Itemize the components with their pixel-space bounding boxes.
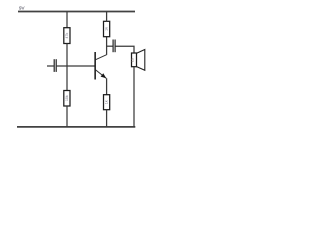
wire R1 to base node <box>66 44 68 67</box>
svg-text:10k: 10k <box>65 95 69 101</box>
svg-text:1k: 1k <box>105 100 109 104</box>
speaker LS1 <box>131 50 145 71</box>
wire R2 to ground <box>66 106 68 127</box>
wire emitter vertical <box>106 78 108 94</box>
wire collector vertical <box>106 37 108 55</box>
wire base node to R2 <box>66 66 68 91</box>
wire rail to R3 <box>106 12 108 22</box>
svg-text:47k: 47k <box>65 33 69 39</box>
resistor R2 <box>64 91 70 107</box>
wire R4 to ground <box>106 110 108 127</box>
transistor Q1 <box>94 52 106 80</box>
wire speaker to ground <box>133 67 135 127</box>
capacitor C1 <box>54 59 56 72</box>
svg-text:9V: 9V <box>19 6 25 11</box>
ground rail <box>17 126 135 128</box>
+9V rail <box>18 11 135 13</box>
resistor R3 <box>104 21 110 36</box>
wire C1 to base <box>57 65 95 67</box>
resistor R4 <box>104 95 110 110</box>
wire input lead <box>47 65 54 67</box>
svg-text:1k: 1k <box>105 27 109 31</box>
wire rail to R1 <box>66 12 68 29</box>
wire collector to C2 <box>106 45 113 47</box>
resistor R1 <box>64 28 70 44</box>
capacitor C2 <box>113 40 115 53</box>
wire C2 to speaker <box>116 46 135 53</box>
